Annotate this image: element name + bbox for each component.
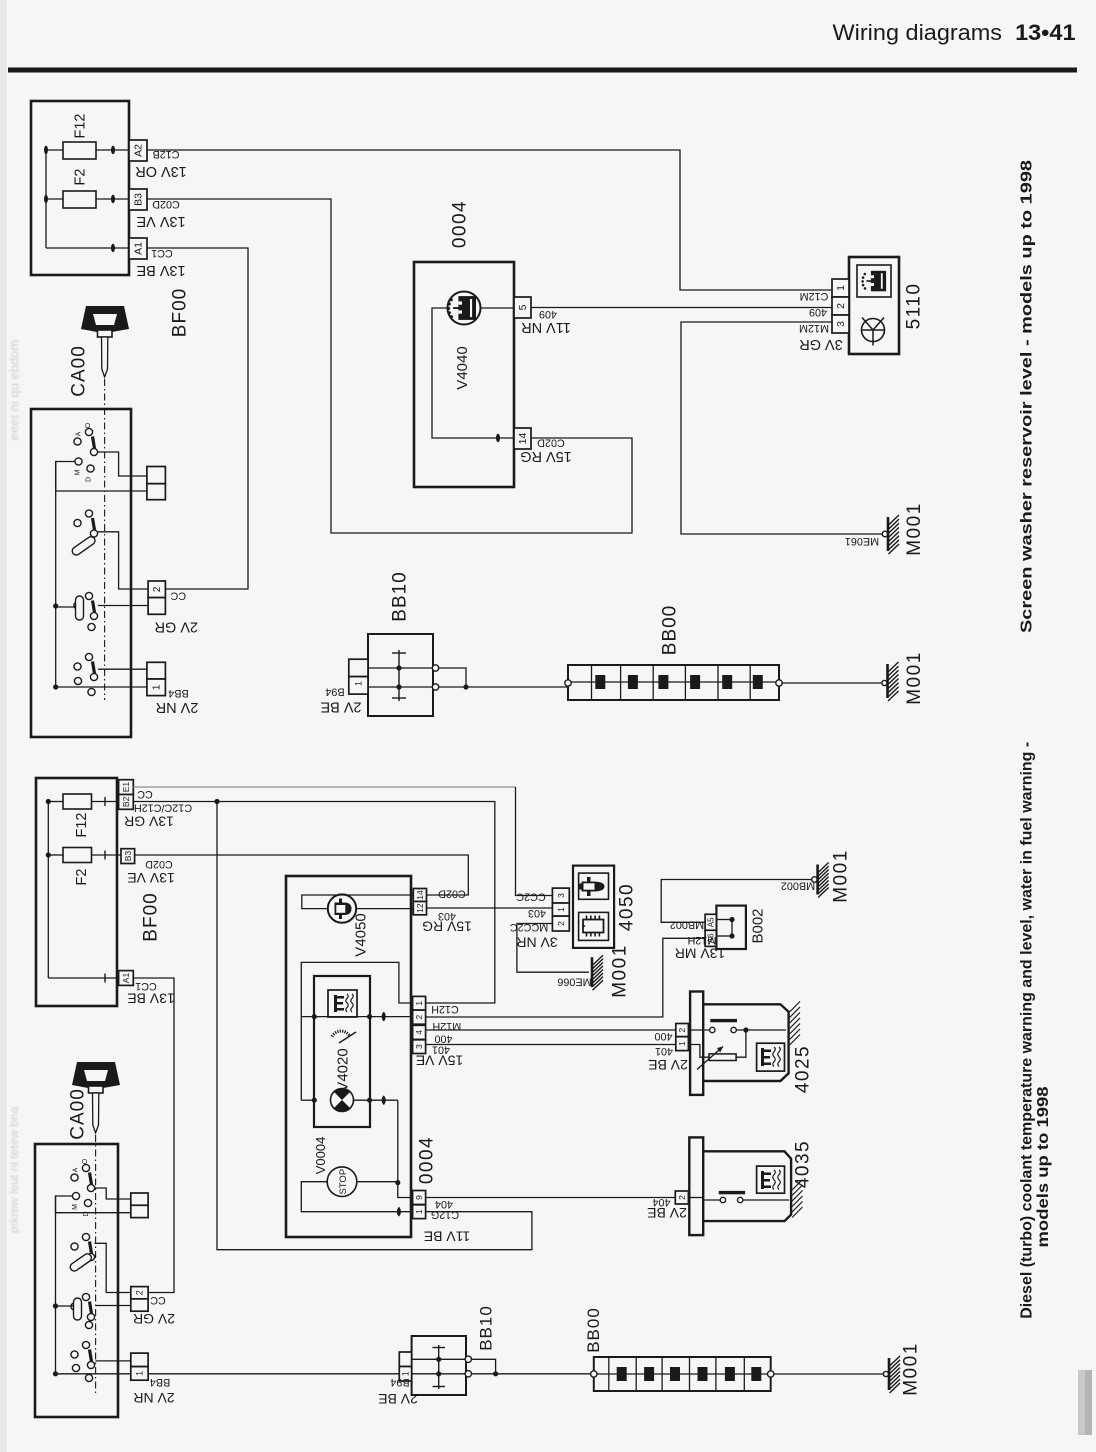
svg-text:1: 1 bbox=[556, 907, 566, 912]
wire bus to BB4 bottom cell bbox=[56, 686, 147, 688]
svg-text:4035: 4035 bbox=[793, 1140, 814, 1188]
fusebox internal bus wire bbox=[45, 150, 47, 248]
svg-text:Diesel (turbo) coolant tempera: Diesel (turbo) coolant temperature warni… bbox=[1018, 742, 1035, 1319]
svg-text:BF00: BF00 bbox=[141, 892, 162, 941]
svg-text:4025: 4025 bbox=[793, 1045, 814, 1093]
fuse F2 (bottom) bbox=[48, 854, 63, 856]
BB10 left cells (bottom) bbox=[399, 1352, 411, 1367]
pin 12 (0004 bottom) bbox=[413, 902, 426, 915]
pin A6 (B002) bbox=[705, 930, 716, 946]
svg-text:M: M bbox=[72, 1204, 79, 1210]
ground ME066 bbox=[591, 957, 594, 987]
svg-text:1: 1 bbox=[135, 1371, 145, 1376]
svg-text:4050: 4050 bbox=[617, 883, 638, 931]
pin 14 (0004 bottom) bbox=[413, 889, 426, 902]
connector box 0004 (bottom) bbox=[286, 876, 411, 1237]
pin 1 (4050) bbox=[552, 903, 569, 916]
pin 5 (0004 top) bbox=[514, 297, 531, 318]
svg-text:4: 4 bbox=[414, 1030, 424, 1035]
BB10 internal symbol bbox=[398, 650, 400, 701]
key axis dash-dot (bottom) bbox=[95, 1135, 97, 1395]
switch contacts group 4 (top CA00) bbox=[85, 653, 92, 660]
pin box BB4 (top CA00) bbox=[147, 662, 166, 679]
svg-text:15V VE: 15V VE bbox=[416, 1053, 463, 1069]
svg-text:2V BE: 2V BE bbox=[648, 1057, 688, 1073]
wire B3 13V VE to 0004 pin14 (bottom) bbox=[135, 855, 469, 895]
pin A2 bbox=[129, 140, 147, 161]
wire group2 to pin 2 (top CA00) bbox=[98, 532, 148, 589]
fuse F12 bbox=[46, 149, 63, 151]
svg-text:M: M bbox=[74, 469, 81, 475]
svg-text:2V GR: 2V GR bbox=[133, 1311, 175, 1327]
svg-text:M001: M001 bbox=[610, 944, 631, 998]
svg-text:F2: F2 bbox=[74, 869, 90, 886]
wire pin2 4050 to ground ME066 bbox=[517, 924, 589, 973]
svg-text:B94: B94 bbox=[325, 686, 344, 698]
wire A2 to 5110 pin1 bbox=[147, 150, 832, 290]
pin 1 lower (0004 bottom) bbox=[413, 1205, 426, 1219]
svg-text:BB00: BB00 bbox=[584, 1307, 603, 1353]
lamp V4050 bbox=[328, 894, 356, 922]
inner bus left (bottom CA00) bbox=[55, 1196, 57, 1374]
svg-text:CC: CC bbox=[170, 590, 186, 602]
svg-text:3: 3 bbox=[414, 1044, 424, 1049]
wire 401 pin3 to 4025 pin1 bbox=[426, 1044, 676, 1046]
svg-text:BB4: BB4 bbox=[168, 687, 188, 699]
4035 hatching bbox=[792, 1180, 802, 1191]
sensor 4050 box bbox=[573, 866, 614, 948]
ignition key symbol (top) bbox=[81, 306, 129, 332]
svg-text:2V GR: 2V GR bbox=[155, 618, 199, 634]
switch 4035 housing bbox=[689, 1137, 703, 1235]
svg-text:400: 400 bbox=[434, 1033, 452, 1045]
svg-text:M001: M001 bbox=[901, 1342, 922, 1396]
svg-text:CC1: CC1 bbox=[135, 980, 157, 992]
fusebox BF00 box (bottom) bbox=[36, 778, 117, 1006]
svg-text:13V BE: 13V BE bbox=[136, 262, 185, 278]
svg-text:1: 1 bbox=[152, 684, 163, 690]
svg-text:0004: 0004 bbox=[417, 1136, 438, 1184]
wires lamp V4050 to pins bbox=[302, 895, 414, 909]
svg-text:3: 3 bbox=[835, 321, 847, 327]
svg-text:1: 1 bbox=[401, 1371, 411, 1376]
svg-text:M001: M001 bbox=[904, 502, 925, 556]
wire A1 inside fusebox (bottom) bbox=[48, 977, 118, 979]
svg-text:2: 2 bbox=[556, 921, 566, 926]
level sensor symbol in 5110 bbox=[857, 265, 891, 297]
switch contacts group 1 (bottom CA00) bbox=[82, 1164, 89, 1171]
4025 thermistor bbox=[688, 1045, 709, 1058]
pin A1 (bottom fusebox) bbox=[119, 971, 134, 986]
svg-text:E1: E1 bbox=[121, 782, 131, 793]
svg-text:A: A bbox=[72, 1167, 79, 1172]
svg-text:ME061: ME061 bbox=[845, 535, 879, 547]
pin 2 (5110) bbox=[832, 297, 849, 315]
svg-text:12: 12 bbox=[415, 903, 425, 913]
temp icon box in V4020 bbox=[328, 990, 357, 1017]
connector cells (top CA00 upper) bbox=[147, 467, 166, 484]
wire A5 to ground MB002 bbox=[661, 880, 811, 923]
svg-text:2V BE: 2V BE bbox=[378, 1391, 418, 1407]
wire BB00 to ground (top) bbox=[782, 682, 882, 684]
fuel symbol in 4050 bbox=[579, 873, 609, 899]
B002 internal bridge bbox=[716, 919, 732, 921]
internal wire M12H bbox=[301, 1016, 412, 1018]
ground ME061 / M001 bbox=[882, 531, 888, 537]
BB00 cell dividers (top) bbox=[591, 665, 593, 700]
temp icon box 4025 bbox=[757, 1043, 785, 1071]
svg-text:STOP: STOP bbox=[338, 1169, 349, 1195]
svg-text:BB10: BB10 bbox=[476, 1305, 495, 1351]
wire M12H pin2 to B002 A6 bbox=[426, 938, 705, 1017]
switch contacts group 2 (top CA00) bbox=[85, 510, 92, 517]
svg-text:O: O bbox=[82, 1158, 89, 1164]
svg-text:2: 2 bbox=[135, 1290, 145, 1295]
svg-text:M12M: M12M bbox=[799, 322, 829, 334]
ground M001 (bottom) bbox=[883, 1371, 888, 1376]
wire group3 to pin2 lower cell (bottom) bbox=[96, 1305, 131, 1307]
BB00 fusible links (top) bbox=[595, 675, 605, 689]
wire bus to BB4 bottom cell (bottom) bbox=[56, 1373, 131, 1375]
pin 1 (0004 bottom) bbox=[413, 996, 426, 1010]
wires stop lamp bbox=[357, 1181, 398, 1183]
svg-text:13V GR: 13V GR bbox=[124, 814, 174, 830]
svg-text:400: 400 bbox=[654, 1030, 672, 1042]
left margin bleed-through bbox=[0, 0, 7, 1452]
wires lamp V4040 to pins bbox=[432, 308, 514, 438]
BB10 left cells (top) bbox=[349, 659, 368, 676]
svg-text:11V BE: 11V BE bbox=[424, 1229, 470, 1245]
lamp V4040 bbox=[448, 292, 481, 325]
pin 2 (4035) bbox=[675, 1191, 688, 1204]
svg-text:13V VE: 13V VE bbox=[127, 870, 174, 886]
wire E1/CC to 4050 pin3 bbox=[133, 786, 515, 788]
svg-text:CC: CC bbox=[137, 788, 153, 800]
svg-text:Wiring diagrams 13•41: Wiring diagrams 13•41 bbox=[833, 20, 1076, 45]
svg-text:14: 14 bbox=[517, 433, 529, 445]
ground MB002 bbox=[812, 877, 818, 883]
switch contacts group 3 (top CA00) bbox=[85, 592, 92, 599]
svg-text:Screen washer reservoir level: Screen washer reservoir level - models u… bbox=[1018, 160, 1035, 633]
wire group2 to pin 2 (bottom CA00) bbox=[95, 1243, 131, 1292]
wire B2 branch down to 11V BE rail bbox=[217, 802, 532, 1250]
wire 403 pin12 to 4050 pin1 bbox=[427, 907, 553, 909]
header rule bbox=[8, 68, 1077, 73]
wire A1 13V BE down to CA00 (bottom) bbox=[133, 978, 174, 1293]
svg-text:CC2C: CC2C bbox=[516, 891, 546, 903]
BB00 end circles (top) bbox=[565, 680, 571, 686]
svg-text:MB002: MB002 bbox=[670, 919, 704, 931]
svg-text:0004: 0004 bbox=[450, 200, 471, 248]
connector box 0004 (top) bbox=[414, 262, 514, 487]
svg-text:13V OR: 13V OR bbox=[135, 163, 187, 179]
svg-text:404: 404 bbox=[435, 1198, 453, 1210]
pin 4 (0004 bottom) bbox=[413, 1025, 426, 1039]
svg-text:models up to 1998: models up to 1998 bbox=[1035, 1086, 1052, 1247]
svg-text:2V BE: 2V BE bbox=[647, 1205, 687, 1221]
sender 4025 housing bbox=[690, 992, 703, 1095]
pin B2 (bottom fusebox) bbox=[119, 795, 134, 810]
switch contacts group 1 (top CA00) bbox=[85, 428, 92, 435]
svg-text:3V GR: 3V GR bbox=[799, 336, 843, 352]
svg-text:D: D bbox=[85, 477, 92, 482]
svg-text:CA00: CA00 bbox=[68, 1088, 89, 1140]
pin A1 bbox=[129, 238, 147, 259]
pin 2 (4050) bbox=[552, 916, 569, 931]
pin 1 (4025) bbox=[676, 1037, 689, 1051]
svg-text:2: 2 bbox=[414, 1015, 424, 1020]
4035 switch contact bbox=[688, 1197, 703, 1199]
wire A1 to CA00 pin2 bbox=[147, 248, 248, 589]
pin B3 (bottom fusebox) bbox=[121, 849, 135, 864]
svg-text:BF00: BF00 bbox=[169, 288, 190, 337]
wire group4 to BB4 top cell bbox=[98, 668, 147, 670]
wire 409 pin5 to 5110 pin2 bbox=[531, 307, 832, 309]
svg-text:13V VE: 13V VE bbox=[136, 213, 185, 229]
wire B3 to 0004 pin14 path bbox=[147, 199, 632, 533]
wire A1 inside fusebox bbox=[46, 247, 129, 249]
key axis dash-dot line bbox=[104, 379, 106, 700]
internal loop pins 1-2 V4020 bbox=[301, 962, 412, 1100]
chip symbol in 4050 bbox=[579, 912, 609, 940]
pin E1 (bottom fusebox) bbox=[119, 780, 134, 795]
wire 400 pin4 to 4025 pin2 bbox=[426, 1029, 676, 1031]
fusebox BF00 box bbox=[31, 101, 129, 275]
wire B2 13V GR down bbox=[133, 802, 495, 1004]
svg-text:3V NR: 3V NR bbox=[516, 935, 557, 951]
fuse F12 (bottom) bbox=[48, 801, 63, 803]
svg-text:C12M: C12M bbox=[800, 290, 829, 302]
wire 404 pin9 to 4035 bbox=[426, 1197, 676, 1199]
svg-text:1: 1 bbox=[414, 1001, 424, 1006]
wire BB00 to ground (bottom) bbox=[774, 1373, 884, 1375]
unit 5110 box bbox=[849, 257, 899, 354]
svg-text:B2: B2 bbox=[121, 796, 131, 807]
fuse strip BB00 box (bottom) bbox=[594, 1357, 771, 1391]
fusebox bus (bottom) bbox=[47, 802, 49, 979]
svg-text:2V NR: 2V NR bbox=[156, 699, 199, 715]
svg-text:B94: B94 bbox=[390, 1376, 409, 1388]
pin 3 (5110) bbox=[832, 315, 849, 333]
switch contacts group 2 (bottom CA00) bbox=[82, 1233, 89, 1240]
wire group1 to connector (top CA00) bbox=[98, 452, 147, 476]
svg-text:2: 2 bbox=[152, 586, 163, 592]
ignition key symbol (bottom) bbox=[72, 1062, 120, 1088]
wire group1 to connector (bottom CA00) bbox=[95, 1188, 131, 1199]
4025 hatching bbox=[790, 1002, 800, 1013]
svg-text:2V BE: 2V BE bbox=[320, 699, 361, 715]
BB10 internal symbol (bottom) bbox=[438, 1345, 440, 1389]
svg-text:401: 401 bbox=[655, 1045, 673, 1057]
switch CA00 box (bottom) bbox=[35, 1144, 118, 1417]
svg-text:13V MR: 13V MR bbox=[675, 946, 726, 962]
fuse strip BB00 box (top) bbox=[568, 665, 779, 700]
BB10 right connections (bottom) bbox=[465, 1356, 471, 1362]
svg-text:A: A bbox=[75, 431, 82, 436]
connector B002 box bbox=[716, 906, 746, 949]
gauge unit V4020 box bbox=[314, 976, 370, 1127]
svg-text:15V RG: 15V RG bbox=[520, 448, 572, 464]
svg-text:B002: B002 bbox=[750, 908, 767, 943]
svg-text:9: 9 bbox=[414, 1195, 424, 1200]
svg-text:C02D: C02D bbox=[152, 198, 180, 210]
svg-text:BB00: BB00 bbox=[660, 605, 681, 655]
BB00 fusible links (bottom) bbox=[594, 1373, 771, 1375]
svg-text:C02D: C02D bbox=[438, 888, 466, 900]
svg-text:13V BE: 13V BE bbox=[127, 991, 174, 1007]
svg-text:A1: A1 bbox=[121, 973, 131, 984]
wire pin3 to ground bbox=[681, 322, 882, 534]
svg-text:CC: CC bbox=[150, 1294, 166, 1306]
svg-text:A2: A2 bbox=[133, 144, 145, 157]
pin 2 (0004 bottom) bbox=[413, 1010, 426, 1024]
svg-text:5: 5 bbox=[517, 304, 529, 310]
pin 1 (5110) bbox=[832, 279, 849, 297]
pin 14 (0004 top) bbox=[514, 428, 531, 449]
svg-text:eeet ni qu ebdom: eeet ni qu ebdom bbox=[7, 340, 22, 440]
svg-text:A5: A5 bbox=[707, 917, 716, 927]
battery BB10 box (bottom) bbox=[412, 1336, 466, 1395]
svg-text:409: 409 bbox=[809, 306, 827, 318]
svg-text:V4050: V4050 bbox=[353, 913, 370, 956]
level indicator symbol bbox=[331, 1089, 354, 1112]
battery BB10 box (top) bbox=[368, 634, 433, 716]
svg-text:MB002: MB002 bbox=[781, 880, 815, 892]
pin 3 (0004 bottom) bbox=[413, 1040, 426, 1054]
svg-text:M001: M001 bbox=[831, 849, 852, 903]
internal wire level indicator to pin 9 bbox=[354, 1099, 398, 1101]
svg-text:M12H: M12H bbox=[688, 934, 717, 946]
svg-text:1: 1 bbox=[414, 1209, 424, 1214]
switch contacts group 4 (bottom CA00) bbox=[82, 1341, 89, 1348]
pin box 2 / CC (bottom CA00) bbox=[131, 1287, 148, 1299]
svg-text:C12C/C12H: C12C/C12H bbox=[134, 802, 192, 814]
svg-text:V4020: V4020 bbox=[335, 1048, 352, 1091]
pin 3 (4050) bbox=[552, 888, 569, 903]
pin B3 bbox=[129, 189, 147, 210]
switch contacts group 3 (bottom CA00) bbox=[82, 1293, 89, 1300]
svg-text:B3: B3 bbox=[123, 851, 133, 862]
stop lamp V0004 bbox=[327, 1167, 357, 1197]
svg-text:CC1: CC1 bbox=[151, 247, 173, 259]
temp icon box 4035 bbox=[757, 1166, 785, 1193]
svg-text:11V NR: 11V NR bbox=[521, 319, 571, 335]
svg-text:A1: A1 bbox=[133, 242, 145, 255]
svg-text:V0004: V0004 bbox=[313, 1137, 328, 1175]
svg-text:C02D: C02D bbox=[145, 858, 173, 870]
connector cells (bottom CA00 upper) bbox=[131, 1193, 148, 1205]
svg-text:1: 1 bbox=[835, 285, 847, 291]
pin 9 (0004 bottom) bbox=[413, 1191, 426, 1205]
svg-text:1: 1 bbox=[354, 681, 364, 686]
svg-text:F2: F2 bbox=[73, 169, 89, 186]
BB00 end circles (bottom) bbox=[591, 1371, 597, 1377]
svg-text:ME066: ME066 bbox=[557, 976, 591, 988]
pin box 2 / CC (top CA00) bbox=[148, 581, 165, 598]
svg-text:2: 2 bbox=[677, 1027, 687, 1032]
inner bus left (top CA00) bbox=[55, 462, 57, 688]
svg-text:prkrew leut ni tetew bna: prkrew leut ni tetew bna bbox=[7, 1106, 21, 1233]
ground M001 (top, right of BB00) bbox=[882, 680, 887, 685]
svg-text:C12G: C12G bbox=[431, 1209, 459, 1221]
svg-text:O: O bbox=[85, 422, 92, 428]
svg-text:V4040: V4040 bbox=[454, 346, 471, 389]
svg-text:409: 409 bbox=[539, 308, 557, 320]
wire CA00 to BB10 (bottom) bbox=[148, 1373, 399, 1375]
svg-text:C02D: C02D bbox=[537, 437, 565, 449]
svg-text:5110: 5110 bbox=[904, 283, 925, 330]
svg-text:2: 2 bbox=[677, 1195, 687, 1200]
4025 switch contact bbox=[688, 1029, 709, 1031]
svg-text:15V RG: 15V RG bbox=[422, 919, 472, 935]
svg-text:14: 14 bbox=[415, 890, 425, 900]
pin box BB4 (bottom CA00) bbox=[131, 1353, 148, 1367]
svg-text:C12H: C12H bbox=[431, 1003, 459, 1015]
wire group3 to pin2 lower cell bbox=[98, 605, 148, 607]
bottom right scan artifact bbox=[1078, 1370, 1092, 1435]
svg-text:F12: F12 bbox=[73, 114, 89, 139]
pump motor symbol in 5110 bbox=[862, 319, 885, 342]
svg-text:403: 403 bbox=[528, 907, 546, 919]
svg-text:M001: M001 bbox=[904, 651, 925, 705]
switch CA00 box (top) bbox=[31, 409, 131, 737]
gauge needle symbol bbox=[331, 1035, 334, 1037]
svg-text:B3: B3 bbox=[133, 193, 145, 206]
svg-text:BB10: BB10 bbox=[390, 571, 411, 621]
svg-text:2V NR: 2V NR bbox=[133, 1390, 174, 1406]
svg-text:BB4: BB4 bbox=[150, 1376, 170, 1388]
svg-text:2: 2 bbox=[835, 303, 847, 309]
svg-text:3: 3 bbox=[556, 893, 566, 898]
svg-text:F12: F12 bbox=[74, 813, 90, 838]
wire group4 to BB4 top cell (bottom) bbox=[96, 1360, 131, 1362]
fuse F2 bbox=[46, 198, 63, 200]
pin A5 (B002) bbox=[705, 914, 716, 930]
svg-text:1: 1 bbox=[677, 1041, 687, 1046]
BB00 cell dividers (bottom) bbox=[608, 1357, 610, 1391]
pin 2 (4025) bbox=[676, 1024, 689, 1037]
BB10 right connections bbox=[432, 665, 438, 671]
svg-text:CA00: CA00 bbox=[69, 345, 90, 397]
